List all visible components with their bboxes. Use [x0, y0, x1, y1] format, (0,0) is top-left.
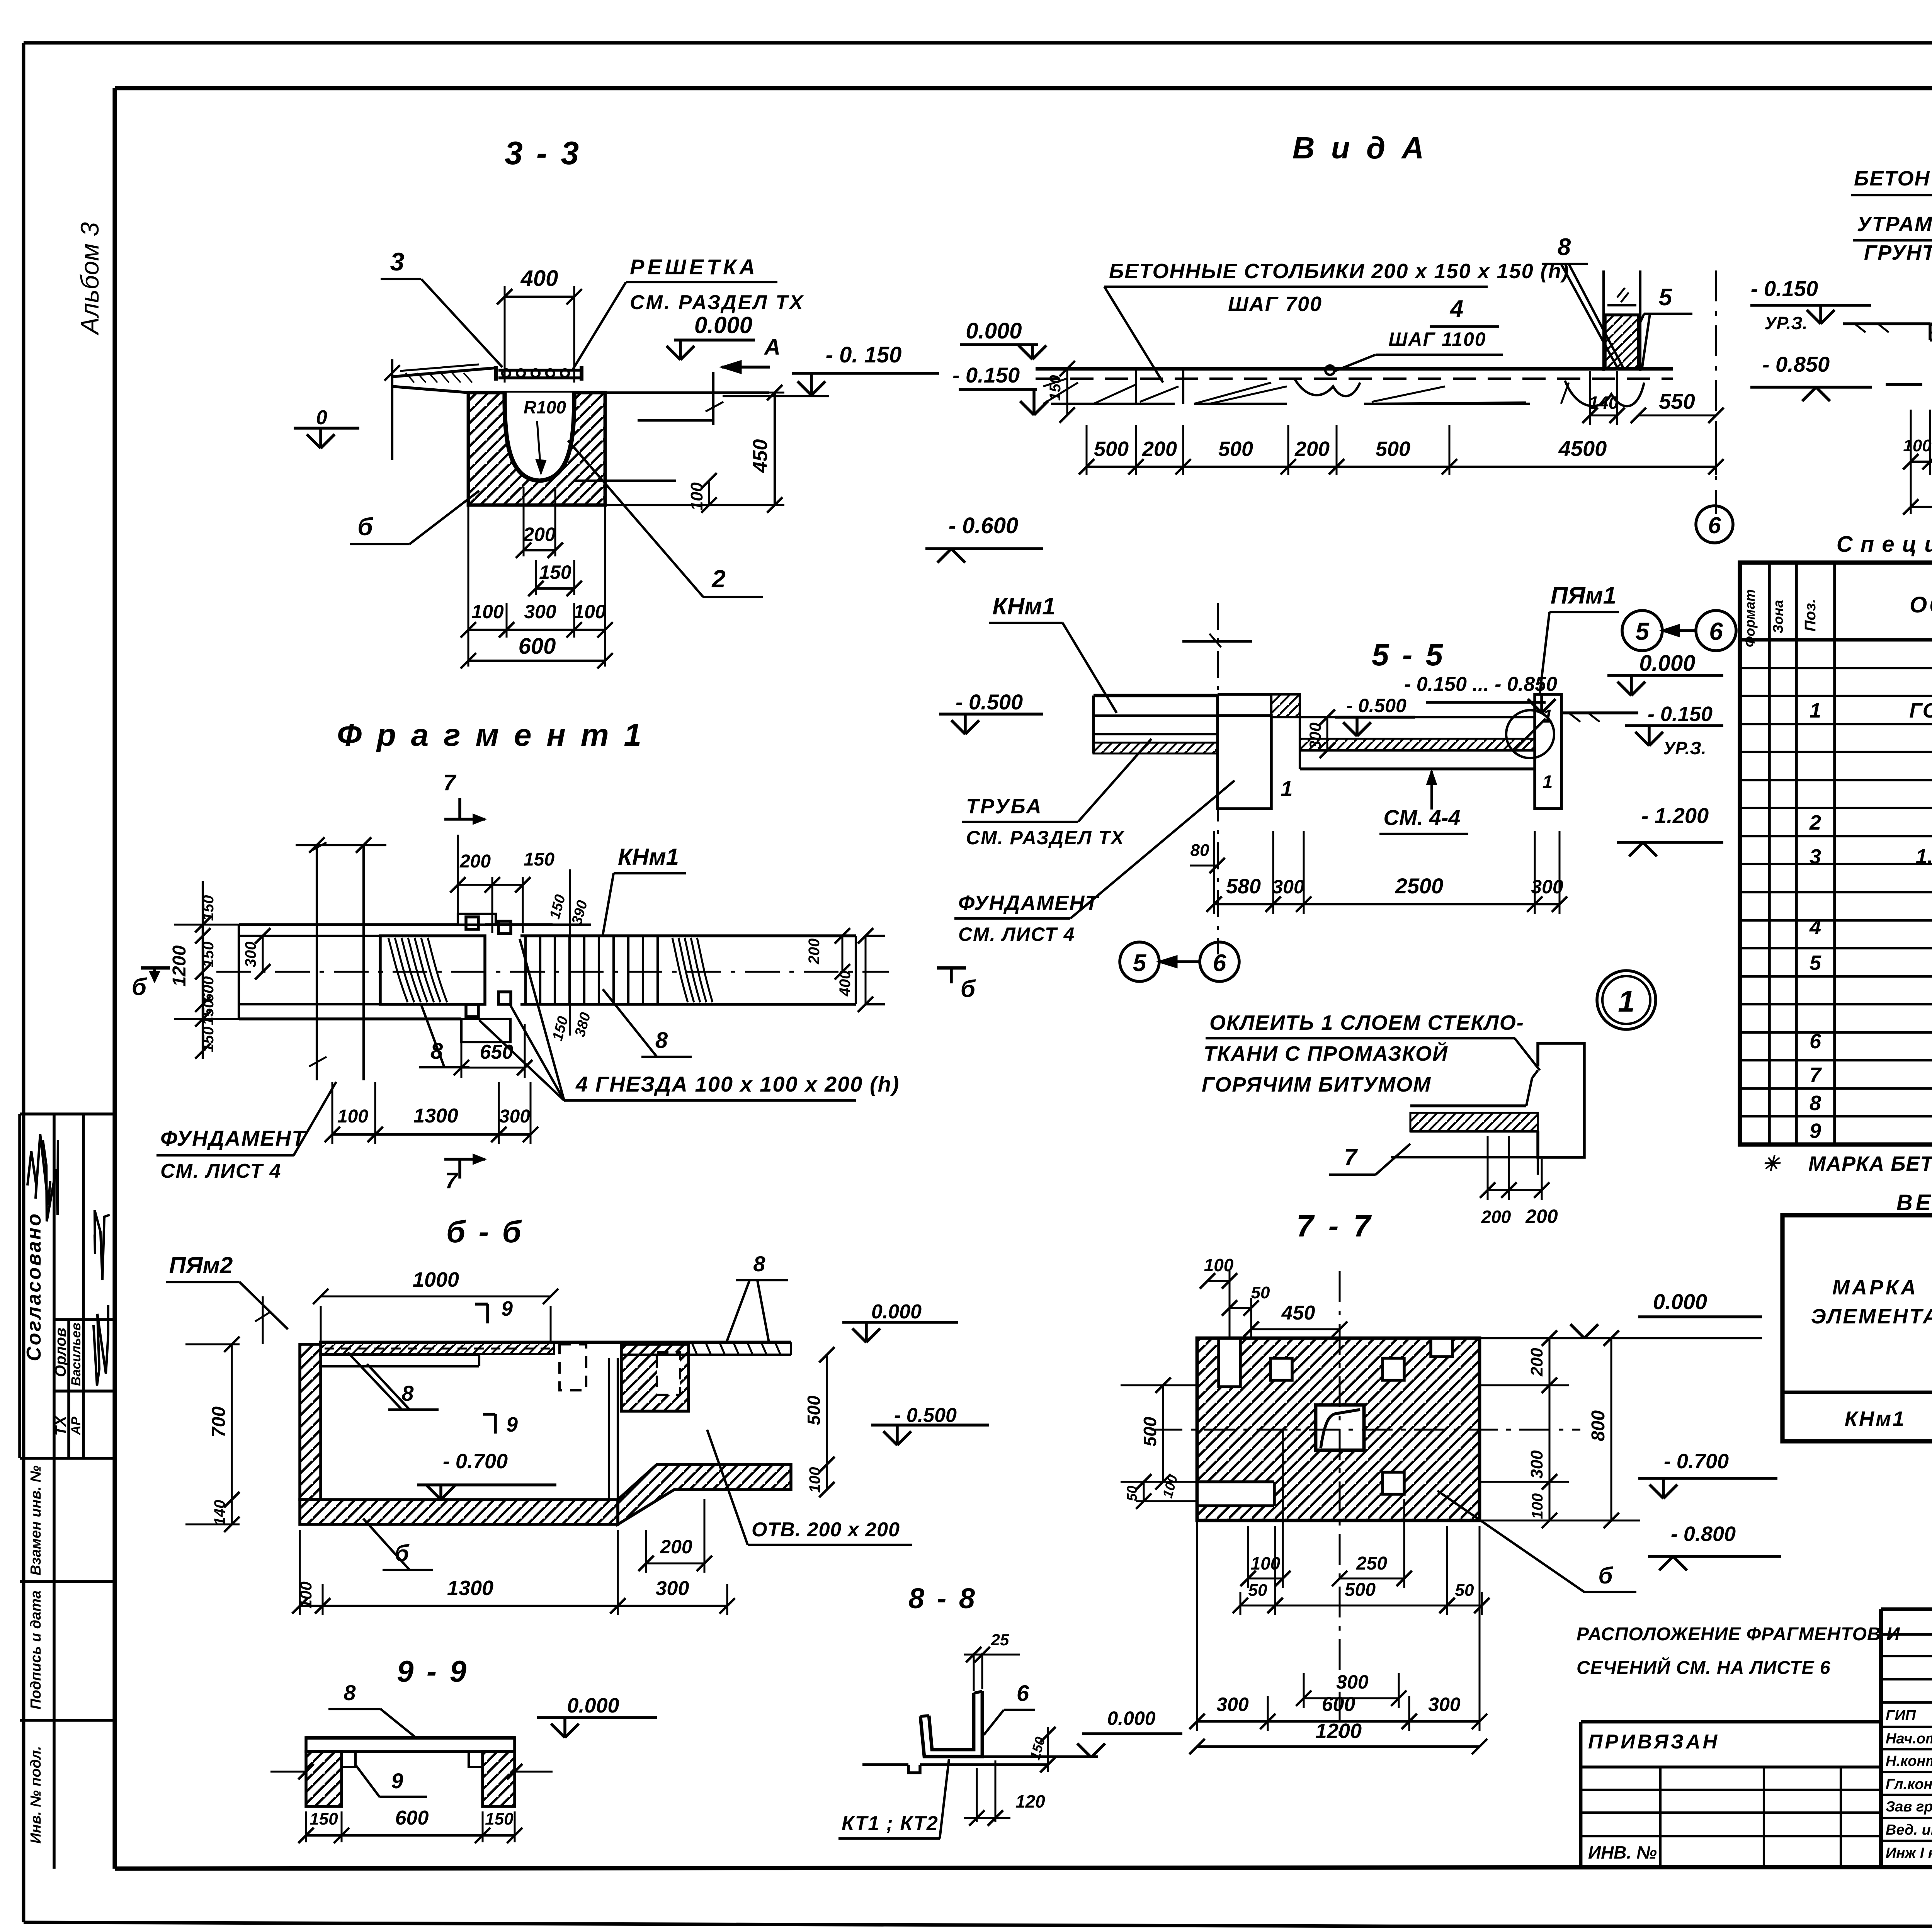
svg-text:9: 9 — [501, 1297, 513, 1320]
svg-text:- 0.150: - 0.150 — [1751, 276, 1818, 301]
svg-text:РЕШЕТКА: РЕШЕТКА — [630, 255, 758, 279]
svg-text:100: 100 — [1903, 436, 1932, 455]
svg-text:300: 300 — [1531, 876, 1563, 898]
svg-text:0.000: 0.000 — [694, 312, 752, 338]
svg-text:300: 300 — [1272, 876, 1304, 898]
svg-text:0.000: 0.000 — [1107, 1708, 1155, 1729]
svg-text:120: 120 — [1015, 1791, 1045, 1811]
svg-text:100: 100 — [297, 1582, 315, 1609]
svg-text:580: 580 — [1226, 875, 1261, 898]
svg-text:100: 100 — [806, 1467, 823, 1493]
svg-text:140: 140 — [1589, 393, 1619, 413]
svg-text:80: 80 — [1190, 841, 1209, 860]
svg-text:9: 9 — [1810, 1119, 1821, 1143]
svg-text:500: 500 — [804, 1395, 824, 1425]
svg-text:Инж I кат.: Инж I кат. — [1886, 1845, 1932, 1861]
svg-text:- 0.500: - 0.500 — [894, 1404, 957, 1427]
svg-text:4 ГНЕЗДА 100 х 100 х 200 (: 4 ГНЕЗДА 100 х 100 х 200 (h) — [575, 1072, 900, 1096]
svg-text:0.000: 0.000 — [871, 1301, 922, 1323]
svg-text:50: 50 — [1251, 1283, 1270, 1302]
svg-text:8: 8 — [655, 1028, 668, 1053]
svg-text:- 0.800: - 0.800 — [1671, 1522, 1736, 1546]
svg-text:9: 9 — [506, 1413, 518, 1436]
svg-text:МАРКА БЕТОНА ПО МОРОЗОСТОЙКОСТ: МАРКА БЕТОНА ПО МОРОЗОСТОЙКОСТИ F150 , П… — [1808, 1151, 1932, 1175]
svg-text:150: 150 — [1047, 375, 1064, 401]
svg-text:550: 550 — [1659, 389, 1695, 413]
svg-text:5: 5 — [1635, 617, 1650, 645]
svg-text:300: 300 — [656, 1577, 689, 1600]
svg-text:100: 100 — [573, 601, 606, 622]
svg-text:ШАГ 700: ШАГ 700 — [1228, 293, 1322, 316]
svg-text:200: 200 — [1294, 437, 1330, 461]
svg-text:РАСПОЛОЖЕНИЕ ФРАГМЕНТОВ И: РАСПОЛОЖЕНИЕ ФРАГМЕНТОВ И — [1577, 1624, 1900, 1645]
svg-text:5: 5 — [1659, 284, 1673, 311]
svg-text:150: 150 — [310, 1810, 338, 1828]
svg-text:КНм1: КНм1 — [618, 844, 679, 870]
svg-text:А: А — [764, 335, 781, 360]
svg-text:150: 150 — [200, 1027, 217, 1053]
svg-text:7: 7 — [1344, 1144, 1358, 1170]
svg-text:Васильев: Васильев — [69, 1323, 83, 1386]
svg-text:1000: 1000 — [413, 1268, 459, 1291]
svg-text:300: 300 — [1527, 1450, 1546, 1479]
svg-text:ВЕДОМОСТЬ РАСХОДА СТАЛИ: ВЕДОМОСТЬ РАСХОДА СТАЛИ НА КНм1 — [1896, 1190, 1932, 1215]
svg-text:Зав гр.: Зав гр. — [1886, 1799, 1932, 1815]
svg-text:400: 400 — [520, 266, 558, 291]
svg-text:0.000: 0.000 — [1653, 1289, 1707, 1314]
svg-text:УТРАМБОВАННЫЙ ЩЕБНЕМ: УТРАМБОВАННЫЙ ЩЕБНЕМ — [1857, 212, 1932, 236]
svg-text:ПРИВЯЗАН: ПРИВЯЗАН — [1588, 1731, 1719, 1753]
svg-text:ПЯм2: ПЯм2 — [169, 1252, 233, 1278]
svg-text:ГОСТ 13579 - 78: ГОСТ 13579 - 78 — [1909, 699, 1932, 722]
svg-text:150: 150 — [485, 1810, 514, 1828]
svg-text:500: 500 — [1094, 437, 1129, 461]
svg-text:1: 1 — [1543, 772, 1553, 793]
svg-text:600: 600 — [519, 634, 556, 659]
svg-text:1300: 1300 — [447, 1577, 493, 1600]
svg-text:- 0.700: - 0.700 — [1664, 1450, 1729, 1473]
svg-text:9 - 9: 9 - 9 — [397, 1654, 469, 1688]
svg-text:150: 150 — [200, 1000, 217, 1026]
svg-text:300: 300 — [1306, 723, 1324, 750]
svg-text:ОКЛЕИТЬ 1 СЛОЕМ СТЕКЛО-: ОКЛЕИТЬ 1 СЛОЕМ СТЕКЛО- — [1209, 1011, 1524, 1034]
svg-text:- 0. 150: - 0. 150 — [826, 342, 902, 367]
svg-text:МАРКА: МАРКА — [1832, 1276, 1918, 1299]
svg-text:5 - 5: 5 - 5 — [1372, 638, 1445, 672]
svg-text:650: 650 — [480, 1041, 514, 1063]
svg-text:100: 100 — [1529, 1493, 1546, 1519]
svg-text:600: 600 — [200, 976, 217, 1002]
svg-text:СМ. РАЗДЕЛ ТХ: СМ. РАЗДЕЛ ТХ — [630, 291, 804, 314]
svg-text:Нач.отд.: Нач.отд. — [1886, 1731, 1932, 1747]
svg-text:400: 400 — [837, 971, 854, 997]
svg-text:б: б — [961, 976, 976, 1002]
svg-text:7: 7 — [1810, 1063, 1822, 1087]
svg-text:0.000: 0.000 — [966, 318, 1022, 344]
svg-text:500: 500 — [1376, 437, 1410, 461]
svg-text:С п е ц и ф и к а ц и я к а: С п е ц и ф и к а ц и я к а н а л а КНм1… — [1837, 532, 1932, 557]
svg-text:ИНВ. №: ИНВ. № — [1588, 1842, 1657, 1862]
svg-text:- 0.150: - 0.150 — [952, 363, 1020, 387]
svg-text:50: 50 — [1455, 1581, 1474, 1600]
svg-text:- 0.700: - 0.700 — [443, 1450, 508, 1473]
svg-text:ГИП: ГИП — [1886, 1708, 1916, 1724]
svg-text:140: 140 — [211, 1500, 228, 1526]
svg-text:2500: 2500 — [1395, 874, 1444, 898]
svg-text:0.000: 0.000 — [1639, 651, 1695, 676]
svg-text:200: 200 — [459, 851, 491, 872]
svg-text:Гл.констр.: Гл.констр. — [1886, 1776, 1932, 1793]
svg-text:Взамен инв. №: Взамен инв. № — [28, 1466, 44, 1576]
svg-text:150: 150 — [524, 849, 554, 870]
svg-text:В и д А: В и д А — [1293, 131, 1428, 165]
svg-text:1: 1 — [1618, 984, 1634, 1018]
svg-text:100: 100 — [337, 1106, 368, 1127]
svg-text:Инв. № подл.: Инв. № подл. — [28, 1746, 44, 1844]
svg-text:8: 8 — [1810, 1092, 1821, 1115]
svg-text:- 0.150 ... - 0.850: - 0.150 ... - 0.850 — [1404, 673, 1557, 696]
svg-text:700: 700 — [209, 1406, 229, 1437]
svg-text:СМ. ЛИСТ 4: СМ. ЛИСТ 4 — [958, 923, 1075, 945]
svg-text:3: 3 — [1810, 845, 1821, 868]
svg-text:100: 100 — [1204, 1255, 1234, 1275]
svg-text:КНм1: КНм1 — [1845, 1407, 1906, 1430]
svg-text:КНм1: КНм1 — [992, 593, 1055, 620]
svg-text:200: 200 — [1525, 1206, 1558, 1227]
svg-text:✳: ✳ — [1762, 1152, 1781, 1175]
svg-text:СМ. РАЗДЕЛ ТХ: СМ. РАЗДЕЛ ТХ — [966, 827, 1125, 849]
svg-text:БЕТОН КЛАССА В 25 , W6 . F15: БЕТОН КЛАССА В 25 , W6 . F150 — [1854, 167, 1932, 190]
svg-text:300: 300 — [242, 942, 259, 968]
svg-text:УР.З.: УР.З. — [1764, 313, 1807, 333]
svg-text:- 0.150: - 0.150 — [1648, 702, 1713, 726]
svg-text:600: 600 — [395, 1807, 429, 1829]
svg-text:500: 500 — [1218, 437, 1253, 461]
svg-text:Формат: Формат — [1742, 589, 1758, 647]
svg-text:1: 1 — [1281, 776, 1293, 801]
svg-text:- 0.850: - 0.850 — [1762, 352, 1830, 376]
svg-text:250: 250 — [1356, 1553, 1387, 1574]
svg-text:ФУНДАМЕНТ: ФУНДАМЕНТ — [160, 1126, 307, 1150]
svg-text:150: 150 — [200, 942, 217, 968]
svg-text:2: 2 — [711, 565, 726, 593]
svg-text:150: 150 — [539, 561, 571, 583]
svg-text:- 1.200: - 1.200 — [1641, 803, 1709, 828]
svg-text:- 0.500: - 0.500 — [956, 690, 1023, 714]
svg-text:ЭЛЕМЕНТА: ЭЛЕМЕНТА — [1811, 1305, 1932, 1328]
svg-text:Ф р а г м е н т 1: Ф р а г м е н т 1 — [337, 718, 645, 753]
svg-text:800: 800 — [1588, 1410, 1609, 1441]
svg-text:Орлов: Орлов — [52, 1328, 69, 1377]
svg-text:ТКАНИ С ПРОМАЗКОЙ: ТКАНИ С ПРОМАЗКОЙ — [1204, 1041, 1448, 1065]
svg-text:1: 1 — [1810, 699, 1821, 722]
svg-text:КТ1 ; КТ2: КТ1 ; КТ2 — [842, 1812, 939, 1835]
svg-text:6: 6 — [1017, 1681, 1029, 1706]
svg-text:200: 200 — [523, 524, 556, 545]
svg-text:300: 300 — [1216, 1694, 1249, 1715]
svg-text:300: 300 — [499, 1106, 530, 1127]
svg-text:б - б: б - б — [446, 1214, 524, 1249]
svg-text:БЕТОННЫЕ СТОЛБИКИ 200 х 1: БЕТОННЫЕ СТОЛБИКИ 200 х 150 х 150 (h) — [1109, 260, 1570, 283]
svg-text:ГОРЯЧИМ БИТУМОМ: ГОРЯЧИМ БИТУМОМ — [1202, 1073, 1431, 1096]
svg-text:7: 7 — [445, 1168, 459, 1193]
svg-text:200: 200 — [1481, 1207, 1511, 1227]
svg-text:ОТВ. 200 х 200: ОТВ. 200 х 200 — [752, 1519, 900, 1541]
svg-text:8: 8 — [344, 1680, 356, 1705]
svg-text:6: 6 — [1709, 617, 1723, 645]
svg-text:Н.контр.: Н.контр. — [1886, 1753, 1932, 1769]
svg-text:0: 0 — [316, 406, 327, 429]
svg-text:3: 3 — [390, 247, 405, 276]
svg-text:СМ. ЛИСТ 4: СМ. ЛИСТ 4 — [160, 1160, 282, 1182]
svg-text:б: б — [357, 513, 374, 541]
svg-text:50: 50 — [1124, 1486, 1140, 1501]
svg-text:- 0.600: - 0.600 — [949, 513, 1019, 538]
svg-text:6: 6 — [1810, 1030, 1821, 1053]
svg-text:50: 50 — [1248, 1581, 1267, 1600]
svg-text:200: 200 — [1527, 1348, 1546, 1377]
svg-text:Зона: Зона — [1770, 600, 1786, 634]
svg-text:3 - 3: 3 - 3 — [505, 135, 581, 171]
svg-text:200: 200 — [806, 939, 823, 965]
svg-text:Согласовано: Согласовано — [23, 1212, 45, 1361]
svg-text:Альбом 3: Альбом 3 — [75, 222, 104, 336]
svg-text:Вед. инж.: Вед. инж. — [1886, 1822, 1932, 1838]
svg-text:600: 600 — [1322, 1693, 1355, 1716]
svg-text:4: 4 — [1449, 296, 1463, 322]
svg-text:R100: R100 — [524, 397, 566, 417]
svg-text:8: 8 — [753, 1252, 765, 1276]
svg-text:450: 450 — [1281, 1302, 1315, 1324]
svg-text:СМ. 4-4: СМ. 4-4 — [1383, 805, 1460, 830]
svg-text:450: 450 — [749, 439, 772, 473]
svg-text:300: 300 — [524, 601, 556, 622]
svg-text:500: 500 — [1140, 1417, 1160, 1446]
svg-text:5: 5 — [1810, 951, 1821, 975]
svg-text:Подпись и дата: Подпись и дата — [28, 1590, 44, 1709]
svg-text:1200: 1200 — [169, 945, 190, 986]
svg-text:2: 2 — [1809, 811, 1821, 834]
svg-text:500: 500 — [1345, 1580, 1376, 1600]
svg-text:СЕЧЕНИЙ СМ. НА ЛИСТЕ 6: СЕЧЕНИЙ СМ. НА ЛИСТЕ 6 — [1577, 1657, 1830, 1678]
svg-text:ПЯм1: ПЯм1 — [1551, 582, 1616, 609]
svg-text:ТРУБА: ТРУБА — [966, 795, 1043, 818]
svg-text:АР: АР — [69, 1417, 83, 1435]
svg-text:5: 5 — [1133, 950, 1147, 976]
svg-text:200: 200 — [1142, 437, 1177, 461]
svg-text:8: 8 — [1558, 234, 1571, 260]
svg-text:ГРУНТ: ГРУНТ — [1864, 241, 1932, 264]
svg-text:1200: 1200 — [1315, 1719, 1362, 1743]
svg-text:25: 25 — [991, 1631, 1009, 1649]
svg-text:7: 7 — [443, 770, 457, 795]
svg-text:100: 100 — [471, 601, 504, 622]
svg-text:1.400 - 15 вып.1: 1.400 - 15 вып.1 — [1916, 845, 1932, 868]
svg-text:0.000: 0.000 — [567, 1694, 619, 1717]
svg-text:8 - 8: 8 - 8 — [908, 1582, 977, 1614]
svg-text:300: 300 — [1336, 1671, 1369, 1693]
svg-text:ТХ: ТХ — [52, 1415, 69, 1435]
svg-text:4500: 4500 — [1558, 436, 1607, 461]
svg-text:9: 9 — [391, 1769, 403, 1793]
svg-text:- 0.500: - 0.500 — [1346, 695, 1406, 716]
svg-text:Поз.: Поз. — [1802, 599, 1819, 632]
svg-text:6: 6 — [1708, 512, 1721, 538]
svg-text:7 - 7: 7 - 7 — [1296, 1209, 1374, 1243]
svg-text:100: 100 — [687, 482, 706, 511]
svg-text:Обозначение: Обозначение — [1910, 592, 1932, 617]
svg-text:300: 300 — [1428, 1694, 1461, 1715]
svg-text:ШАГ 1100: ШАГ 1100 — [1388, 328, 1486, 350]
svg-text:6: 6 — [1213, 950, 1226, 976]
svg-text:150: 150 — [200, 895, 217, 921]
svg-text:4: 4 — [1809, 916, 1821, 939]
svg-text:УР.З.: УР.З. — [1663, 738, 1706, 758]
svg-text:1300: 1300 — [413, 1105, 458, 1127]
svg-text:б: б — [1598, 1563, 1613, 1588]
svg-text:б: б — [132, 974, 147, 1000]
svg-text:200: 200 — [660, 1536, 692, 1558]
